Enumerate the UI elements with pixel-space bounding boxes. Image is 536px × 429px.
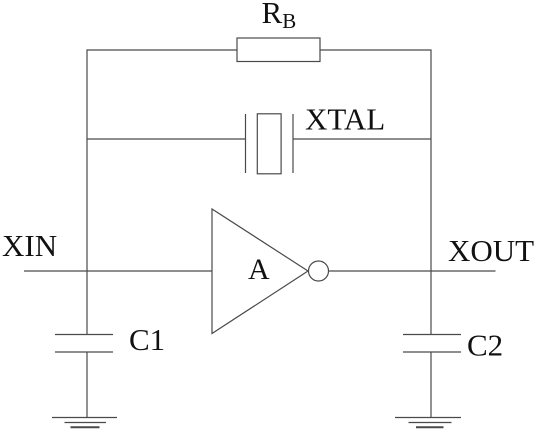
- wire XOUT: [329, 270, 496, 272]
- ground right: [395, 418, 461, 428]
- wire C2 to ground: [430, 352, 432, 418]
- wire RB to top-right rail: [320, 50, 431, 139]
- ground left: [52, 418, 117, 428]
- wire right rail XOUT junction to C2: [430, 271, 432, 335]
- wire left rail crystal to XIN junction: [86, 139, 88, 271]
- capacitor C2: [403, 335, 461, 353]
- svg-text:XTAL: XTAL: [305, 102, 385, 137]
- svg-text:A: A: [248, 253, 270, 286]
- wire crystal left: [87, 138, 246, 140]
- svg-text:C2: C2: [467, 328, 503, 363]
- wire left rail XIN junction to C1: [86, 271, 88, 335]
- resistor RB: [237, 38, 320, 62]
- svg-text:RB: RB: [262, 0, 297, 33]
- svg-text:XIN: XIN: [2, 228, 57, 263]
- inverter A: [212, 209, 329, 334]
- crystal XTAL: [246, 114, 294, 174]
- wire right rail crystal to XOUT junction: [430, 139, 432, 271]
- svg-text:C1: C1: [129, 322, 165, 357]
- wire C1 to ground: [86, 352, 88, 418]
- capacitor C1: [55, 335, 113, 353]
- wire crystal right: [293, 138, 431, 140]
- svg-text:XOUT: XOUT: [448, 233, 534, 268]
- wire XIN: [24, 270, 212, 272]
- wire top-left rail to RB: [87, 50, 237, 139]
